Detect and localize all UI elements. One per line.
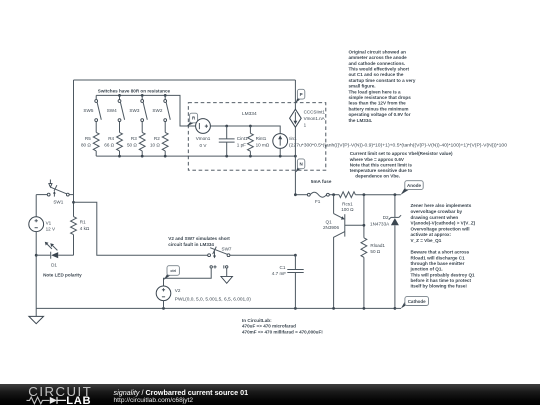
- svg-text:Overvoltage protection will: Overvoltage protection will: [411, 226, 470, 231]
- svg-text:SW1: SW1: [53, 200, 63, 205]
- svg-text:Cint1: Cint1: [237, 136, 248, 141]
- svg-text:4 kΩ: 4 kΩ: [80, 226, 90, 231]
- svg-text:1 pF: 1 pF: [237, 142, 246, 147]
- wire bottom rail: [36, 307, 396, 310]
- svg-text:CCCSIint1: CCCSIint1: [304, 110, 326, 115]
- svg-text:Original circuit showed an: Original circuit showed an: [349, 49, 407, 54]
- svg-text:10 mΩ: 10 mΩ: [256, 142, 270, 147]
- svg-text:simple resistance that drops: simple resistance that drops: [349, 95, 412, 100]
- svg-text:66 Ω: 66 Ω: [104, 142, 114, 147]
- resistor R5 80 Ω: [81, 122, 99, 157]
- svg-text:itself by blowing the fuse!: itself by blowing the fuse!: [411, 284, 468, 289]
- flag N (node N): [296, 159, 305, 173]
- svg-text:less than the 12V from the: less than the 12V from the: [349, 101, 407, 106]
- svg-text:activate at approx:: activate at approx:: [411, 232, 452, 237]
- svg-text:10 Ω: 10 Ω: [150, 142, 160, 147]
- svg-text:signality / Crowbarred current: signality / Crowbarred current source 01: [114, 388, 249, 397]
- svg-text:circuit fault in LM334: circuit fault in LM334: [168, 242, 214, 247]
- svg-text:V2 and SW7 simulates short: V2 and SW7 simulates short: [168, 236, 230, 241]
- svg-text:This will probably destroy Q1: This will probably destroy Q1: [411, 272, 476, 277]
- flag Anode: [401, 181, 423, 195]
- svg-text:P: P: [300, 92, 303, 97]
- svg-text:D1: D1: [51, 263, 57, 268]
- wire left rail (top rail down to SW1/R1): [73, 80, 75, 217]
- capacitor C1 4.7 mF: [272, 255, 304, 308]
- switch SW5: [83, 95, 101, 121]
- svg-text:operating voltage of 0.9V for: operating voltage of 0.9V for: [349, 112, 411, 117]
- resistor Rload1 50 Ω: [361, 195, 385, 309]
- svg-text:SW2: SW2: [152, 108, 162, 113]
- svg-text:4.7 mF: 4.7 mF: [272, 271, 286, 276]
- svg-text:C1: C1: [280, 265, 286, 270]
- svg-text:LM334: LM334: [242, 111, 257, 117]
- wire top rail (battery+ to LM334 V+ pin): [74, 79, 296, 81]
- svg-text:drawing current when: drawing current when: [411, 215, 459, 220]
- note LED polarity: [43, 273, 82, 278]
- svg-text:Note that this current limit i: Note that this current limit is: [350, 162, 413, 167]
- svg-text:(227u*300*0.5*(tanh(((V(P)-V(N: (227u*300*0.5*(tanh(((V(P)-V(N))-0.9)*10…: [289, 142, 508, 147]
- note In CircuitLab: [242, 318, 323, 335]
- wire switch-bank top rail to Vmon1: [96, 94, 195, 126]
- svg-text:PWL(0,0, 5,0, 5.001,5, 6,5, 6.: PWL(0,0, 5,0, 5.001,5, 6,5, 6.001,0): [175, 296, 252, 301]
- note beware short: [410, 250, 476, 289]
- svg-text:the LM334.: the LM334.: [349, 118, 373, 123]
- LED D1: [36, 242, 73, 268]
- svg-text:Rload1: Rload1: [370, 243, 385, 248]
- svg-text:The load given here is a: The load given here is a: [349, 89, 402, 94]
- svg-text:R2: R2: [154, 136, 160, 141]
- svg-text:Anode: Anode: [407, 183, 421, 188]
- svg-text:and cathode connections.: and cathode connections.: [349, 61, 406, 66]
- svg-text:V(anode)-V(cathode) > V(V_Z): V(anode)-V(cathode) > V(V_Z): [411, 221, 476, 226]
- zener diode D2 1N4733A: [370, 195, 401, 309]
- svg-text:ctrl: ctrl: [170, 269, 176, 273]
- resistor R4 66 Ω: [104, 122, 122, 157]
- svg-text:470mF => 470 millifarad = 470,: 470mF => 470 millifarad = 470,000uF!: [242, 330, 323, 335]
- fuse F1: [294, 192, 339, 204]
- transistor Q1 2N3906 (PNP): [323, 195, 364, 309]
- svg-text:small figure.: small figure.: [349, 84, 376, 89]
- note switches: [98, 88, 171, 93]
- flag R (node R): [187, 113, 198, 126]
- node junction SW1/R1: [72, 201, 75, 204]
- svg-text:LAB: LAB: [66, 395, 91, 405]
- capacitor Cint1 1 pF: [219, 126, 248, 156]
- svg-text:100 Ω: 100 Ω: [341, 207, 354, 212]
- svg-text:Beware that a short across: Beware that a short across: [411, 250, 470, 255]
- svg-text:50 Ω: 50 Ω: [370, 249, 380, 254]
- svg-text:SW4: SW4: [107, 108, 117, 113]
- svg-text:where Vbe = approx 0.6V: where Vbe = approx 0.6V: [349, 157, 405, 162]
- svg-text:1N4733A: 1N4733A: [370, 222, 390, 227]
- resistor R2 10 Ω: [150, 122, 168, 157]
- wire SW7 control to V2: [164, 268, 212, 286]
- LM334 macromodel dashed box: [188, 103, 325, 171]
- resistor Rcs1 100 Ω: [332, 192, 401, 212]
- svg-text:Zener here also implements: Zener here also implements: [411, 203, 472, 208]
- svg-text:50 Ω: 50 Ω: [127, 142, 137, 147]
- ground SW7 control: [221, 268, 233, 283]
- svg-text:temperature sensitive due to: temperature sensitive due to: [350, 168, 413, 173]
- wire SW7 to C1 node: [230, 254, 297, 257]
- svg-text:470uF => 470 microfarad: 470uF => 470 microfarad: [242, 324, 296, 329]
- svg-text:Rload1 will discharge C1: Rload1 will discharge C1: [411, 255, 466, 260]
- svg-text:Cathode: Cathode: [408, 299, 426, 304]
- svg-text:V1: V1: [46, 221, 52, 226]
- wire Vmon1 to Iin1 top: [210, 125, 280, 134]
- note zener crowbar: [411, 203, 476, 243]
- switch SW7 (voltage controlled): [208, 247, 232, 269]
- wire R1-top node to SW7: [74, 202, 208, 255]
- flag ctrl: [164, 266, 180, 280]
- svg-text:SW3: SW3: [129, 108, 139, 113]
- current source Iin1: [273, 134, 508, 157]
- battery V1 12 V: [29, 195, 56, 309]
- footer bar: [0, 384, 540, 405]
- svg-text:In CircuitLab:: In CircuitLab:: [242, 318, 272, 323]
- svg-text:SW7: SW7: [222, 247, 232, 252]
- flag Cathode: [395, 297, 429, 309]
- switch SW2: [152, 95, 170, 121]
- resistor Rint1 10 mΩ: [248, 126, 270, 156]
- switch SW1: [36, 180, 73, 205]
- note original circuit: [349, 49, 416, 122]
- svg-text:dependence on Vbe.: dependence on Vbe.: [355, 174, 400, 179]
- svg-text:Rint1: Rint1: [256, 136, 267, 141]
- svg-text:ammeter across the anode: ammeter across the anode: [349, 55, 408, 60]
- resistor R3 50 Ω: [127, 122, 145, 157]
- svg-text:junction of Q1.: junction of Q1.: [410, 267, 443, 272]
- note V2/SW7: [168, 236, 230, 247]
- note current limit: [349, 151, 453, 178]
- svg-text:5mA fuse: 5mA fuse: [311, 179, 332, 184]
- svg-text:Q1: Q1: [326, 219, 333, 224]
- switch SW4: [107, 95, 125, 121]
- footer title text: [114, 388, 249, 404]
- resistor R1 4 kΩ: [71, 217, 90, 256]
- svg-text:R3: R3: [131, 136, 137, 141]
- switch SW3: [129, 95, 147, 121]
- wire right rail top: [294, 80, 296, 109]
- svg-text:Vmon1.nA: Vmon1.nA: [304, 116, 325, 121]
- svg-text:Vmon1: Vmon1: [196, 136, 211, 141]
- svg-text:http://circuitlab.com/c68jyt2: http://circuitlab.com/c68jyt2: [114, 397, 194, 404]
- svg-text:battery minus the minimum: battery minus the minimum: [349, 106, 409, 111]
- CircuitLab logo: [27, 384, 93, 405]
- svg-text:SW5: SW5: [83, 108, 93, 113]
- flag P (node P): [296, 89, 305, 103]
- ground: [29, 308, 44, 323]
- svg-text:N: N: [299, 162, 302, 167]
- svg-text:V2: V2: [175, 288, 181, 293]
- svg-text:Rcs1: Rcs1: [342, 202, 353, 207]
- svg-text:0 V: 0 V: [200, 143, 208, 148]
- svg-text:Switches have 80R on resistanc: Switches have 80R on resistance: [98, 88, 171, 93]
- svg-text:Current limit set to approx Vb: Current limit set to approx Vbe/(Resisto…: [350, 151, 453, 156]
- ammeter Vmon1 0 V: [196, 119, 211, 148]
- svg-text:F1: F1: [315, 199, 321, 204]
- svg-text:overvoltage crowbar by: overvoltage crowbar by: [411, 209, 463, 214]
- svg-text:R5: R5: [85, 136, 91, 141]
- svg-text:D2: D2: [383, 215, 389, 220]
- svg-text:80 Ω: 80 Ω: [81, 142, 91, 147]
- svg-text:R4: R4: [108, 136, 114, 141]
- wire right rail mid: [294, 127, 296, 194]
- svg-text:startup time constant to a ver: startup time constant to a very: [349, 78, 416, 83]
- svg-text:out C1 and so reduce the: out C1 and so reduce the: [349, 72, 404, 77]
- svg-text:through the base emitter: through the base emitter: [411, 261, 465, 266]
- source V2 PWL: [156, 286, 251, 308]
- svg-text:before it has time to protect: before it has time to protect: [411, 278, 472, 283]
- svg-text:2N3906: 2N3906: [323, 225, 340, 230]
- svg-text:Note LED polarity: Note LED polarity: [43, 273, 82, 278]
- svg-text:R1: R1: [80, 220, 86, 225]
- note 5mA fuse: [311, 179, 332, 184]
- controlled source CCCSIint1 (diamond): [290, 109, 326, 127]
- svg-text:12 V: 12 V: [46, 227, 56, 232]
- wire bank bottom rail into LM334: [96, 155, 297, 158]
- svg-text:V_Z = Vbe_Q1: V_Z = Vbe_Q1: [411, 238, 442, 243]
- svg-text:This would effectively short: This would effectively short: [349, 67, 410, 72]
